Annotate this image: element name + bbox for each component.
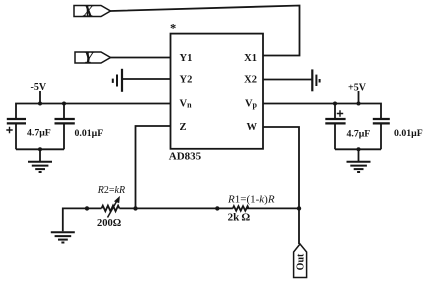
svg-text:Out: Out xyxy=(296,253,307,270)
svg-text:200Ω: 200Ω xyxy=(97,218,121,229)
svg-text:X2: X2 xyxy=(244,75,257,86)
svg-text:R1=(1-k)R: R1=(1-k)R xyxy=(227,193,275,205)
svg-text:0.01μF: 0.01μF xyxy=(75,128,104,139)
svg-text:X: X xyxy=(82,3,94,20)
svg-text:2k Ω: 2k Ω xyxy=(228,212,251,224)
svg-text:*: * xyxy=(170,21,176,35)
svg-text:Vp: Vp xyxy=(245,99,258,110)
svg-text:X1: X1 xyxy=(244,53,257,64)
svg-text:4.7μF: 4.7μF xyxy=(347,129,371,140)
svg-text:Y1: Y1 xyxy=(180,53,193,64)
svg-text:Y2: Y2 xyxy=(180,75,193,86)
svg-text:Vn: Vn xyxy=(180,99,193,110)
svg-text:-5V: -5V xyxy=(31,82,47,93)
svg-text:Z: Z xyxy=(180,122,187,133)
svg-text:4.7μF: 4.7μF xyxy=(27,128,51,139)
svg-text:AD835: AD835 xyxy=(169,150,202,162)
svg-text:0.01μF: 0.01μF xyxy=(394,128,423,139)
svg-text:W: W xyxy=(247,122,258,133)
svg-text:R2=kR: R2=kR xyxy=(97,185,125,196)
svg-text:+5V: +5V xyxy=(348,83,367,94)
svg-text:Y: Y xyxy=(84,50,95,67)
